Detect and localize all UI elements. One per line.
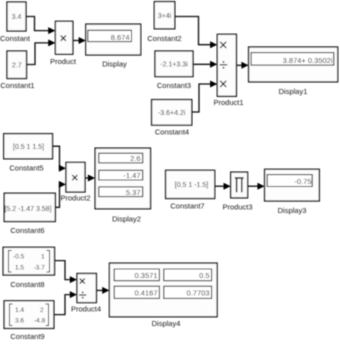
product Product1 — [213, 34, 243, 107]
wire Constant to Product — [26, 17, 55, 35]
constant Constant7 — [166, 170, 215, 210]
wire Constant7 to Product3 — [215, 183, 231, 190]
svg-text:-0.5: -0.5 — [13, 254, 25, 261]
svg-text:Product1: Product1 — [213, 98, 243, 107]
svg-text:Product: Product — [50, 57, 77, 66]
svg-text:[5.2 -1.47 3.58]: [5.2 -1.47 3.58] — [4, 206, 51, 213]
svg-text:-3.7: -3.7 — [34, 265, 46, 272]
display Display4 — [109, 263, 217, 328]
wire Product1 to Display1 — [236, 62, 248, 69]
svg-text:Constant8: Constant8 — [10, 280, 44, 289]
svg-text:2.6: 2.6 — [130, 154, 140, 163]
wire Constant4 to Product1 — [192, 81, 218, 113]
svg-text:5.37: 5.37 — [126, 188, 141, 197]
wire Constant6 to Product2 — [55, 181, 66, 207]
wire Constant5 to Product2 — [53, 146, 67, 172]
svg-text:Constant1: Constant1 — [0, 81, 34, 90]
svg-text:8.674: 8.674 — [111, 33, 130, 42]
svg-text:Constant2: Constant2 — [147, 34, 181, 43]
constant Constant2 — [147, 2, 181, 43]
svg-text:1.4: 1.4 — [15, 307, 24, 314]
svg-text:Constant7: Constant7 — [170, 202, 204, 211]
svg-text:-2.1+3.3i: -2.1+3.3i — [160, 62, 188, 69]
svg-text:2: 2 — [40, 307, 44, 314]
svg-text:-3.6+4.2i: -3.6+4.2i — [158, 110, 186, 117]
product Product4 — [71, 274, 101, 314]
constant Constant4 — [152, 100, 192, 137]
svg-text:Display1: Display1 — [279, 87, 308, 96]
svg-text:Product3: Product3 — [222, 203, 252, 212]
display Display — [86, 24, 141, 68]
svg-text:3.874+ 0.3502i: 3.874+ 0.3502i — [283, 56, 333, 65]
svg-text:1: 1 — [41, 254, 45, 261]
svg-text:Constant: Constant — [0, 34, 31, 43]
svg-text:Product2: Product2 — [60, 194, 90, 203]
svg-text:Constant5: Constant5 — [9, 164, 43, 173]
display Display3 — [265, 169, 320, 215]
svg-text:3.4: 3.4 — [12, 14, 22, 21]
svg-text:[0.5 1 1.5]: [0.5 1 1.5] — [13, 144, 44, 151]
svg-text:0.4167: 0.4167 — [135, 289, 158, 298]
wire Constant9 to Product4 — [54, 291, 77, 315]
product Product — [50, 21, 77, 66]
display Display2 — [95, 148, 150, 223]
svg-text:Constant4: Constant4 — [155, 128, 189, 137]
svg-text:2.7: 2.7 — [12, 63, 22, 70]
constant Constant — [0, 2, 31, 43]
svg-text:Constant6: Constant6 — [10, 226, 44, 235]
wire Constant1 to Product — [27, 39, 56, 64]
svg-text:[0.5 1 -1.5]: [0.5 1 -1.5] — [175, 182, 209, 189]
constant Constant5 — [4, 134, 53, 173]
svg-text:3+4i: 3+4i — [158, 13, 172, 20]
display Display1 — [249, 47, 338, 96]
svg-text:Constant9: Constant9 — [10, 332, 44, 341]
wire Constant2 to Product1 — [175, 17, 218, 49]
svg-text:Constant3: Constant3 — [157, 81, 191, 90]
svg-text:Display3: Display3 — [278, 206, 307, 215]
svg-text:3.6: 3.6 — [15, 318, 24, 325]
constant Constant1 — [0, 51, 34, 90]
product-of-elements Product3 — [222, 172, 252, 211]
svg-text:-4.8: -4.8 — [34, 318, 46, 325]
svg-text:0.7703: 0.7703 — [187, 289, 210, 298]
constant Constant6 — [4, 193, 55, 235]
product Product2 — [60, 162, 90, 202]
constant Constant3 — [155, 51, 193, 90]
constant Constant8 — [3, 247, 54, 289]
svg-text:0.3571: 0.3571 — [135, 271, 158, 280]
svg-text:Display4: Display4 — [152, 319, 181, 328]
wire Constant3 to Product1 — [193, 61, 217, 68]
wire Product to Display — [73, 37, 86, 44]
wire Constant8 to Product4 — [55, 261, 78, 284]
svg-text:Product4: Product4 — [71, 305, 101, 314]
wire Product2 to Display2 — [85, 175, 95, 182]
wire Product4 to Display4 — [96, 287, 109, 294]
constant Constant9 — [4, 301, 54, 341]
svg-text:Display: Display — [102, 60, 127, 69]
svg-text:0.5: 0.5 — [199, 271, 209, 280]
svg-text:-1.47: -1.47 — [123, 171, 140, 180]
svg-text:1.5: 1.5 — [15, 265, 24, 272]
svg-text:Display2: Display2 — [112, 215, 141, 224]
svg-text:-0.75: -0.75 — [294, 177, 311, 186]
wire Product3 to Display3 — [248, 183, 265, 190]
